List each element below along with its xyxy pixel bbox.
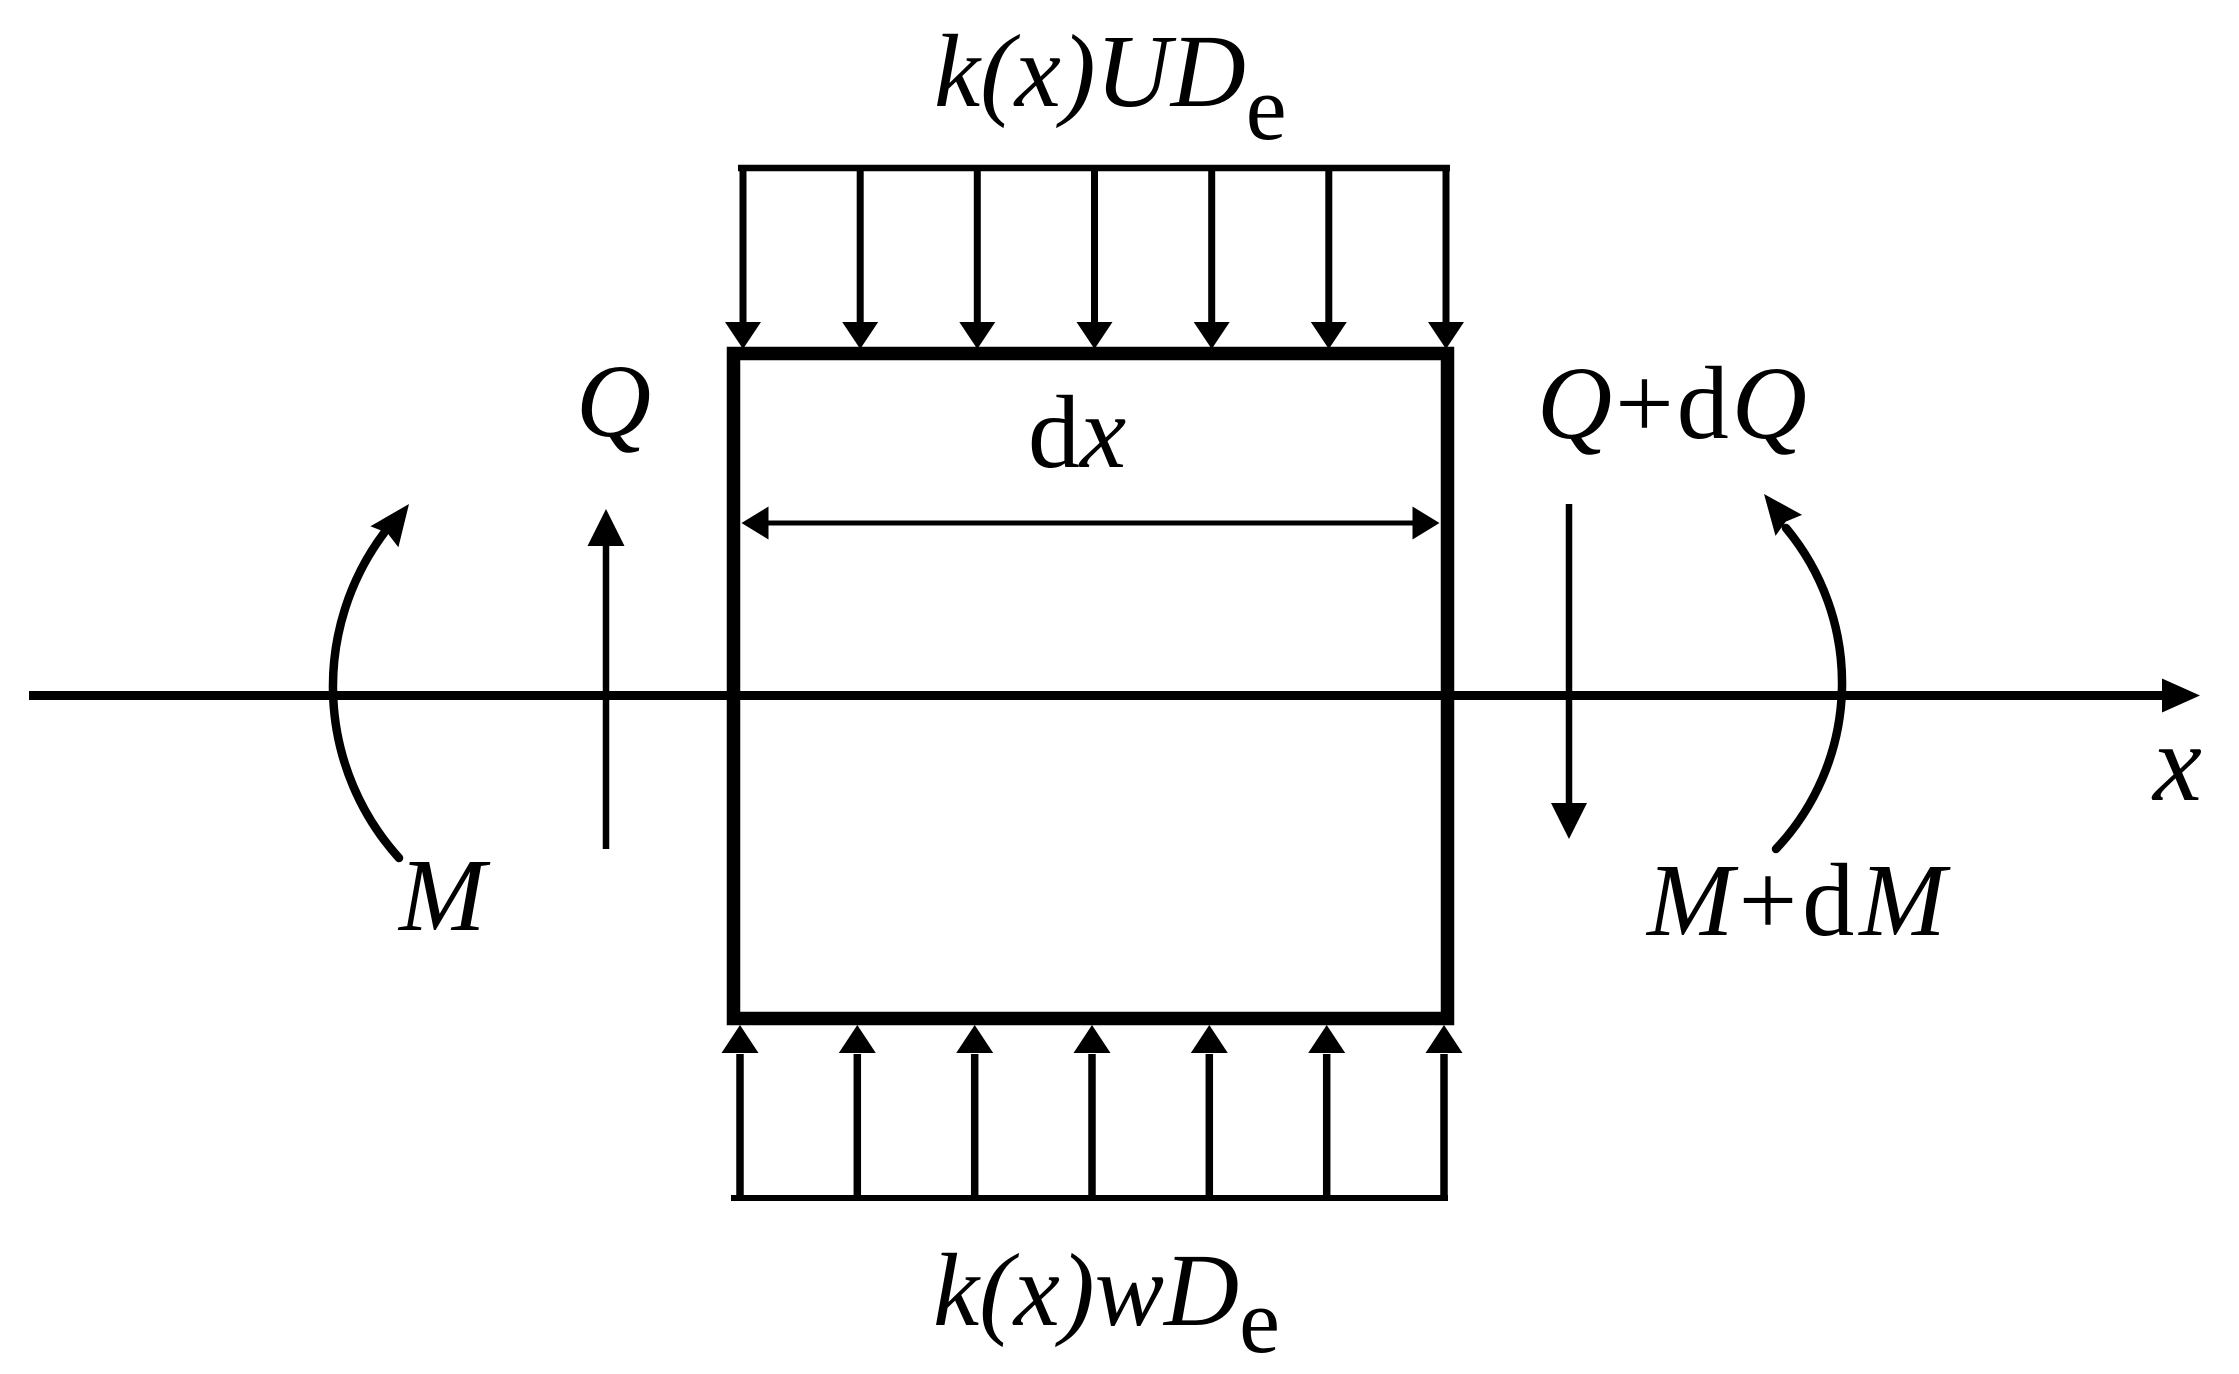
top load arrow 3 bbox=[959, 168, 995, 349]
top load arrow 4 bbox=[1077, 168, 1113, 349]
svg-text:M: M bbox=[397, 838, 491, 953]
x axis arrowhead bbox=[2162, 679, 2200, 713]
bottom load arrow 5 bbox=[1191, 1025, 1228, 1198]
bending moment M+dM arc arrowhead bbox=[1764, 494, 1802, 536]
svg-text:Q+dQ: Q+dQ bbox=[1537, 346, 1810, 461]
top load arrow 5 bbox=[1194, 168, 1230, 349]
svg-text:dx: dx bbox=[1028, 375, 1126, 490]
bending moment M arc arrowhead bbox=[370, 504, 409, 547]
top load arrow 2 bbox=[842, 168, 878, 349]
bottom load arrow 6 bbox=[1308, 1025, 1345, 1198]
shear force Q+dQ arrow bbox=[1551, 504, 1587, 839]
svg-text:k(x)wDe: k(x)wDe bbox=[933, 1233, 1280, 1372]
svg-text:Q: Q bbox=[576, 344, 651, 459]
top load arrow 6 bbox=[1311, 168, 1347, 349]
bottom load arrow 4 bbox=[1074, 1025, 1111, 1198]
bottom load arrow 7 bbox=[1426, 1025, 1463, 1198]
top distributed load line bbox=[738, 165, 1450, 172]
dx dimension double arrow bbox=[742, 507, 1440, 540]
bending moment M arc bbox=[333, 533, 399, 858]
top load arrow 1 bbox=[725, 168, 761, 349]
x axis line bbox=[29, 691, 2166, 700]
bottom load arrow 3 bbox=[956, 1025, 993, 1198]
svg-text:x: x bbox=[2151, 702, 2202, 824]
bending moment M+dM arc bbox=[1776, 528, 1842, 849]
svg-text:M+dM: M+dM bbox=[1645, 843, 1951, 958]
beam element rectangle bbox=[734, 354, 1448, 1019]
top load arrow 7 bbox=[1428, 168, 1464, 349]
bottom load arrow 1 bbox=[722, 1025, 759, 1198]
bottom distributed load line bbox=[731, 1195, 1448, 1201]
shear force Q arrow bbox=[588, 509, 625, 849]
svg-text:k(x)UDe: k(x)UDe bbox=[934, 14, 1287, 159]
bottom load arrow 2 bbox=[839, 1025, 876, 1198]
